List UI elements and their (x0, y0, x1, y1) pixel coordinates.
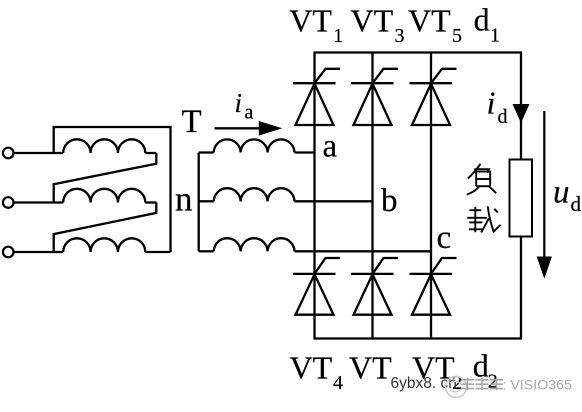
svg-text:a: a (323, 129, 338, 165)
label i_a (235, 88, 254, 124)
wire phase b to bridge node b (295, 200, 373, 202)
label d2 (473, 348, 498, 393)
delta connection winding1 end to winding2 start (diagonal) (54, 153, 157, 203)
watermark logo circle (446, 377, 467, 398)
wire bridge rail phase c (430, 53, 432, 339)
svg-text:VT: VT (408, 3, 451, 39)
thyristor VT3 (351, 69, 398, 125)
node n label (175, 180, 193, 219)
secondary neutral bus (node n vertical wire) (198, 153, 200, 252)
thyristor VT1 (293, 69, 340, 125)
svg-text:VT: VT (351, 3, 394, 39)
svg-text:c: c (437, 220, 452, 256)
wire terminal C to primary winding 3 (13, 251, 53, 253)
wire right rail (load branch) (520, 53, 522, 339)
label VT1 (289, 3, 343, 47)
node c label (437, 220, 452, 256)
svg-text:b: b (381, 183, 398, 219)
wire terminal B to primary winding 2 (13, 201, 53, 203)
label d1 (474, 2, 500, 47)
svg-text:d: d (498, 106, 508, 128)
transformer T secondary winding b (coil) (199, 188, 295, 201)
current arrow i_d (513, 104, 530, 123)
wire terminal A to primary winding 1 (13, 152, 53, 154)
thyristor VT6 (351, 258, 398, 315)
svg-text:n: n (175, 180, 193, 219)
delta connection winding2 end to winding3 start (diagonal) (54, 203, 157, 253)
watermark 6ybx8.cn (391, 375, 457, 392)
thyristor VT2 (410, 258, 457, 315)
label 载 (load char 2, drawn) (467, 206, 500, 232)
svg-text:VT: VT (349, 349, 392, 385)
wire top bus (positive, d1) (314, 51, 523, 53)
svg-text:: VISIO365: : VISIO365 (503, 378, 573, 394)
svg-text:i: i (235, 88, 243, 118)
wire bridge rail phase a (313, 53, 315, 339)
label 负 (load char 1, drawn) (467, 164, 496, 195)
svg-text:T: T (182, 104, 202, 140)
delta connection winding3 end back to winding1 start (wrap wire) (54, 127, 171, 252)
transformer T primary winding 1 (coil) (54, 139, 157, 153)
node b label (381, 183, 398, 219)
thyristor VT5 (410, 69, 457, 125)
label VT4 (290, 349, 344, 394)
label VT3 (351, 3, 405, 47)
svg-text:VT: VT (290, 349, 333, 385)
input terminal B (phase 2) (3, 197, 14, 208)
load resistor (rectangle) (510, 160, 533, 237)
label VT2 (412, 349, 462, 394)
svg-text:a: a (245, 102, 254, 124)
label T (transformer) (182, 104, 202, 140)
svg-text:d: d (474, 2, 490, 38)
label u_d (553, 175, 582, 217)
transformer T primary winding 3 (coil) (54, 238, 171, 252)
watermark 微信号: VISIO365 (461, 378, 572, 394)
label VT6 (349, 349, 392, 385)
transformer T primary winding 2 (coil) (54, 189, 157, 203)
voltage arrow u_d (537, 111, 552, 279)
svg-text:1: 1 (333, 25, 343, 47)
transformer T secondary winding a (coil) (199, 139, 295, 152)
svg-text:d: d (473, 348, 489, 384)
wire bottom bus (negative, d2) (314, 337, 523, 339)
input terminal A (phase 1) (3, 148, 14, 159)
svg-text:d: d (571, 192, 582, 216)
svg-text:4: 4 (333, 372, 343, 394)
node a label (323, 129, 338, 165)
label i_d (487, 85, 508, 129)
wire phase a to bridge node a (295, 151, 315, 153)
svg-text:3: 3 (395, 25, 405, 47)
input terminal C (phase 3) (3, 247, 14, 258)
svg-text:i: i (487, 85, 496, 121)
label VT5 (408, 3, 462, 47)
wire bridge rail phase b (371, 53, 373, 339)
svg-text:VT: VT (289, 3, 332, 39)
wire phase c to bridge node c (295, 250, 432, 252)
thyristor VT4 (293, 258, 340, 315)
svg-text:1: 1 (490, 25, 500, 47)
current arrow i_a (215, 121, 283, 136)
svg-text:5: 5 (452, 25, 462, 47)
transformer T secondary winding c (coil) (199, 238, 295, 251)
svg-text:u: u (553, 175, 570, 211)
